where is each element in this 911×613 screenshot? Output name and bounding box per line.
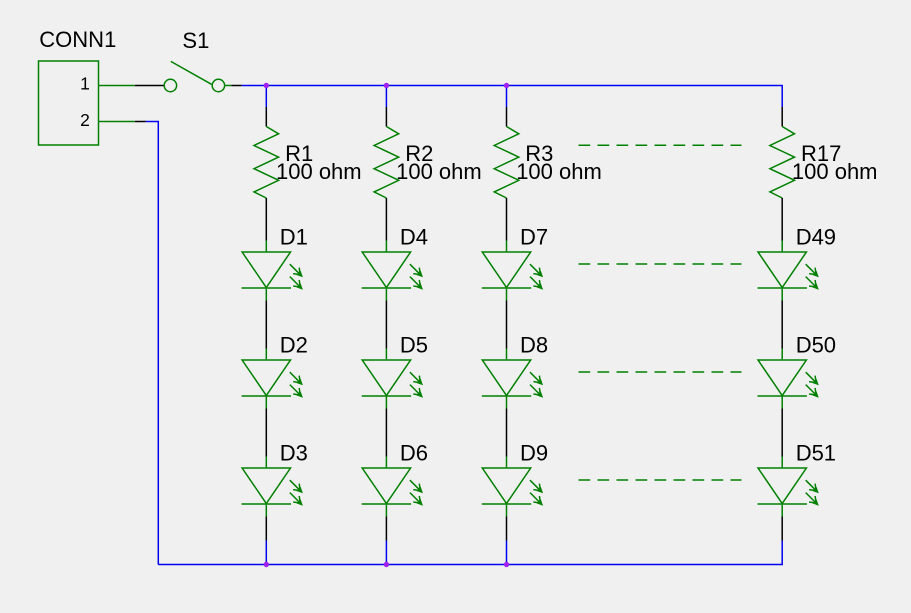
wire D49 to D50 — [781, 301, 783, 349]
resistor R3 — [494, 127, 519, 199]
svg-text:D4: D4 — [400, 225, 428, 250]
LED D3 — [242, 457, 303, 517]
dashed continuation resistor row — [579, 144, 742, 146]
connector CONN1 — [39, 61, 135, 145]
wire R3 to D7 — [506, 198, 508, 241]
junction bottom rail x=506.5 — [504, 562, 509, 567]
wire D6 to bottom rail — [385, 517, 387, 541]
wire D9 to bottom rail — [506, 517, 508, 541]
wire bottom drop col 3 — [506, 541, 508, 565]
svg-text:100 ohm: 100 ohm — [792, 159, 878, 184]
wire D7 to D8 — [506, 301, 508, 349]
wire to resistor R2 — [385, 107, 387, 127]
svg-text:100 ohm: 100 ohm — [516, 159, 602, 184]
wire D51 to bottom rail — [781, 517, 783, 541]
wire pin2 stub — [135, 121, 146, 123]
wire R17 to D49 — [781, 198, 783, 241]
LED D50 — [758, 349, 819, 409]
LED D9 — [482, 457, 543, 517]
wire bottom rail — [158, 541, 782, 565]
junction top rail x=506.5 — [504, 83, 509, 88]
wire R2 to D4 — [385, 198, 387, 241]
wire left rail — [146, 122, 159, 565]
resistor R1 — [254, 127, 279, 199]
svg-text:D6: D6 — [400, 441, 428, 466]
svg-text:D7: D7 — [520, 225, 548, 250]
switch S1 — [164, 61, 231, 91]
LED D51 — [758, 457, 819, 517]
svg-text:D5: D5 — [400, 333, 428, 358]
junction top rail x=386.4 — [384, 83, 389, 88]
resistor R17 — [770, 127, 795, 199]
dashed continuation LED row 1 — [579, 263, 742, 265]
dashed continuation LED row 3 — [579, 479, 742, 481]
junction bottom rail x=386.4 — [384, 562, 389, 567]
wire D50 to D51 — [781, 409, 783, 457]
svg-text:100 ohm: 100 ohm — [276, 159, 362, 184]
wire D1 to D2 — [265, 301, 267, 349]
wire top drop col 1 — [265, 86, 267, 108]
junction top rail x=266.3 — [264, 83, 269, 88]
junction bottom rail x=266.3 — [264, 562, 269, 567]
svg-text:100 ohm: 100 ohm — [396, 159, 482, 184]
wire S1 to top rail — [231, 85, 241, 87]
svg-text:S1: S1 — [182, 28, 209, 53]
LED D1 — [242, 241, 303, 301]
LED D4 — [362, 241, 423, 301]
wire pin1 to S1 — [135, 85, 164, 87]
svg-text:CONN1: CONN1 — [39, 27, 116, 52]
LED D2 — [242, 349, 303, 409]
svg-text:1: 1 — [80, 74, 90, 94]
wire to resistor R1 — [265, 107, 267, 127]
LED D8 — [482, 349, 543, 409]
wire bottom drop col 2 — [385, 541, 387, 565]
wire D5 to D6 — [385, 409, 387, 457]
LED D49 — [758, 241, 819, 301]
LED D7 — [482, 241, 543, 301]
svg-text:D49: D49 — [796, 225, 836, 250]
wire D4 to D5 — [385, 301, 387, 349]
wire to resistor R3 — [506, 107, 508, 127]
wire D2 to D3 — [265, 409, 267, 457]
wire top rail — [242, 86, 783, 108]
svg-text:D51: D51 — [796, 441, 836, 466]
svg-text:D3: D3 — [280, 441, 308, 466]
svg-text:D50: D50 — [796, 333, 836, 358]
svg-text:D9: D9 — [520, 441, 548, 466]
svg-text:2: 2 — [80, 110, 90, 130]
LED D6 — [362, 457, 423, 517]
wire top drop col 2 — [385, 86, 387, 108]
svg-text:D8: D8 — [520, 333, 548, 358]
svg-text:D1: D1 — [280, 225, 308, 250]
wire D8 to D9 — [506, 409, 508, 457]
LED D5 — [362, 349, 423, 409]
resistor R2 — [374, 127, 399, 199]
wire R1 to D1 — [265, 198, 267, 241]
wire D3 to bottom rail — [265, 517, 267, 541]
wire to resistor R17 — [781, 107, 783, 127]
wire bottom drop col 1 — [265, 541, 267, 565]
wire top drop col 3 — [506, 86, 508, 108]
svg-text:D2: D2 — [280, 333, 308, 358]
dashed continuation LED row 2 — [579, 371, 742, 373]
